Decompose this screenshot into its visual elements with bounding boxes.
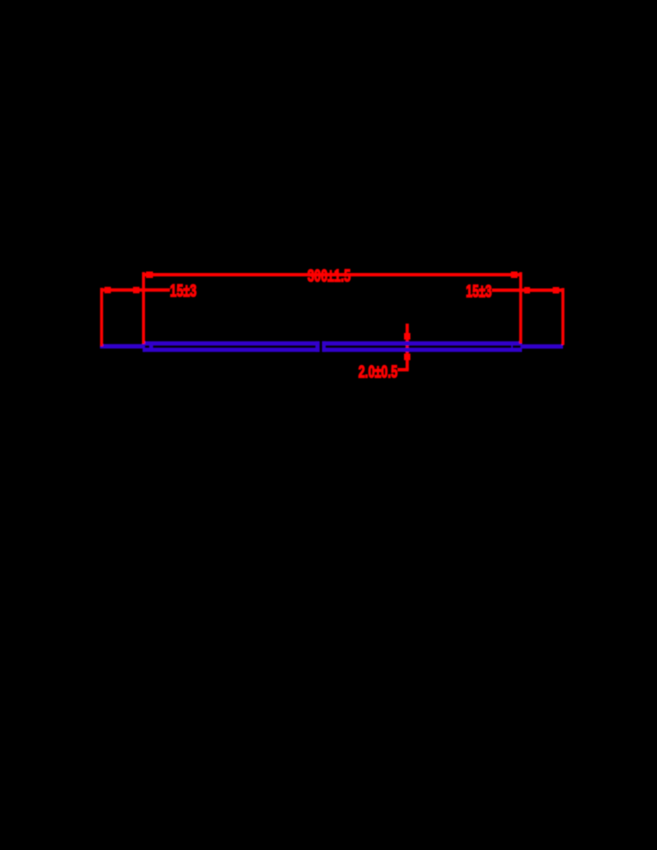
svg-text:2.0±0.5: 2.0±0.5 (358, 361, 397, 381)
svg-text:15±3: 15±3 (466, 281, 492, 301)
svg-text:300±1.5: 300±1.5 (308, 265, 351, 285)
svg-text:15±3: 15±3 (170, 281, 197, 301)
